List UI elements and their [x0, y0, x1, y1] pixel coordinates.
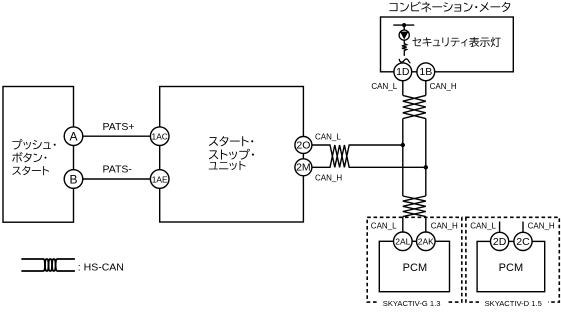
svg-text:SKYACTIV-G 1.3: SKYACTIV-G 1.3 — [383, 299, 441, 308]
pin 2O — [295, 137, 312, 154]
svg-text:2O: 2O — [296, 139, 310, 151]
wire twist to 2AL — [402, 217, 404, 242]
wire 1B down — [425, 81, 427, 96]
pin 2D — [491, 232, 509, 250]
pin 1AE — [150, 170, 169, 189]
wire 2M CAN_H — [303, 145, 425, 167]
svg-text:CAN_H: CAN_H — [528, 222, 555, 231]
svg-text:: HS-CAN: : HS-CAN — [78, 261, 124, 273]
PCM box (SKYACTIV-D) — [477, 241, 545, 291]
legend twisted pair — [21, 259, 75, 271]
pin 2AK — [417, 232, 436, 251]
svg-text:PCM: PCM — [499, 262, 523, 274]
svg-text:CAN_L: CAN_L — [470, 222, 496, 231]
svg-text:1AC: 1AC — [152, 132, 168, 142]
wire bar to LED — [403, 25, 405, 30]
svg-text:2M: 2M — [296, 162, 311, 174]
svg-text:CAN_L: CAN_L — [315, 133, 341, 142]
internal bus bar — [393, 24, 414, 26]
combination meter box — [381, 17, 514, 72]
svg-text:1B: 1B — [419, 66, 432, 78]
svg-text:2AL: 2AL — [395, 237, 410, 247]
stub CAN_H 2C — [522, 222, 524, 233]
wave break symbol — [399, 59, 410, 63]
CAN_H bus vertical — [425, 119, 427, 196]
svg-text:CAN_L: CAN_L — [371, 82, 397, 91]
pin A — [64, 127, 83, 146]
pin 1AC — [150, 127, 169, 146]
pin 1B — [417, 63, 435, 81]
svg-text:1D: 1D — [396, 66, 410, 78]
junction node CAN_L — [401, 143, 405, 147]
svg-text:A: A — [69, 130, 77, 144]
PCM box (SKYACTIV-G) — [379, 241, 449, 291]
SKYACTIV-D 1.5 dashed box — [466, 217, 559, 302]
svg-text:1AE: 1AE — [152, 174, 168, 184]
pin 2M — [295, 159, 312, 176]
svg-text:CAN_H: CAN_H — [430, 82, 457, 91]
pin 2AL — [394, 232, 413, 251]
svg-text:SKYACTIV-D 1.5: SKYACTIV-D 1.5 — [485, 299, 542, 308]
text security indicator label — [412, 37, 500, 47]
text ssu line2 — [209, 149, 254, 160]
junction node CAN_H — [424, 165, 428, 169]
text ssu line1 — [209, 136, 254, 146]
svg-text:2AK: 2AK — [418, 237, 434, 247]
wire PATS+ A to 1AC — [74, 135, 160, 137]
text push line3 — [12, 166, 49, 175]
security indicator LED circle — [399, 30, 409, 40]
text combination meter label — [389, 2, 510, 13]
text ssu line3 — [209, 161, 246, 170]
start stop unit box — [160, 87, 304, 223]
pin 1D — [394, 63, 412, 81]
stub CAN_L 2D — [499, 222, 501, 233]
coil under LED — [402, 40, 407, 56]
twisted pair (PCM drop) — [403, 196, 426, 217]
text push line1 — [12, 139, 55, 149]
svg-text:CAN_H: CAN_H — [315, 173, 342, 182]
pin B — [64, 170, 83, 189]
svg-text:CAN_L: CAN_L — [371, 222, 397, 231]
text push line2 — [12, 152, 46, 162]
LED triangle — [400, 32, 409, 40]
wire PATS- B to 1AE — [74, 178, 160, 180]
svg-text:PATS+: PATS+ — [103, 121, 135, 133]
svg-text:2D: 2D — [493, 236, 507, 248]
junction dot bus bar — [402, 23, 406, 27]
push button start box — [3, 87, 74, 223]
CAN_L bus vertical — [402, 119, 404, 196]
svg-text:PATS-: PATS- — [103, 164, 133, 176]
wire 2O CAN_L — [303, 145, 402, 167]
wire twist to 2AK — [425, 217, 427, 242]
svg-text:PCM: PCM — [403, 262, 427, 274]
svg-text:CAN_H: CAN_H — [431, 222, 458, 231]
svg-text:2C: 2C — [516, 236, 530, 248]
wire 1D down — [402, 81, 404, 96]
pin 2C — [514, 232, 532, 250]
twisted pair (meter drop) — [403, 95, 426, 118]
SKYACTIV-G 1.3 dashed box — [367, 217, 462, 302]
svg-text:B: B — [69, 172, 77, 186]
